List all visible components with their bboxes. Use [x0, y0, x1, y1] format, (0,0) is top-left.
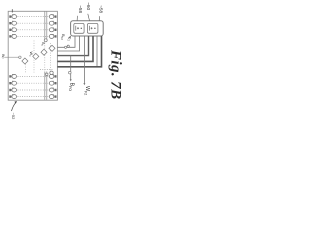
- wire dotted wordline row3: [18, 29, 49, 31]
- memory cell M12: [49, 34, 56, 38]
- memory cell M10: [49, 21, 56, 25]
- memory cell M7: [9, 88, 16, 92]
- wire W3: [57, 36, 88, 56]
- arrow 520: [12, 102, 17, 111]
- wire dotted wordline row5: [18, 75, 49, 77]
- memory array box 500: [8, 11, 57, 100]
- memory cell M5: [9, 74, 16, 78]
- wire dotted wordline row8: [18, 96, 49, 98]
- wire long vertical WF2: [83, 36, 85, 84]
- wire bitline BL2 top: [46, 12, 48, 41]
- wire dotted wordline row4: [18, 35, 49, 37]
- memory cell M8: [9, 94, 16, 98]
- wire dotted bitline continuation B: [33, 41, 35, 73]
- wire dotted bitline continuation A: [44, 41, 46, 72]
- svg-text:WF: WF: [0, 54, 5, 59]
- wire dotted wordline row1: [18, 16, 49, 18]
- node square N3: [46, 73, 48, 75]
- wire long vertical BFO: [70, 56, 72, 81]
- memory cell M15: [49, 88, 56, 92]
- memory cell M9: [49, 14, 56, 18]
- driver unit U1: [74, 23, 84, 33]
- node circle on BFO: [69, 71, 72, 74]
- node circle N2: [50, 71, 53, 74]
- svg-text:~52: ~52: [11, 113, 16, 120]
- driver box 506: [71, 21, 104, 36]
- node circle label o: [67, 45, 69, 47]
- driver unit U2 symbol: [89, 26, 95, 31]
- svg-text:WF2: WF2: [84, 86, 90, 95]
- memory cell M11: [49, 27, 56, 31]
- memory cell M13: [49, 74, 56, 78]
- wire W6: [57, 36, 101, 67]
- memory cell M4: [9, 34, 16, 38]
- wire bitline BL1 top: [44, 12, 46, 41]
- node circle WF: [19, 56, 21, 58]
- arrowhead BFO: [70, 79, 72, 81]
- ellipsis diamond D4: [22, 58, 28, 64]
- wire left edge stub WF: [5, 56, 19, 58]
- wire dotted wordline row2: [18, 22, 49, 24]
- wire dotted wordline row6: [18, 82, 49, 84]
- wire bitline BL2 bottom: [46, 72, 48, 100]
- wire W5: [96, 36, 98, 66]
- driver unit U2: [87, 23, 98, 33]
- label 2 leader: [69, 36, 71, 39]
- arrowhead WF2: [83, 83, 85, 85]
- memory cell M2: [9, 21, 16, 25]
- label leader stub top-left: [11, 9, 13, 12]
- svg-text:C2: C2: [66, 37, 72, 42]
- wire W4: [57, 36, 93, 61]
- svg-text:Fig. 7B: Fig. 7B: [108, 49, 124, 99]
- svg-text:BF2: BF2: [60, 34, 66, 40]
- label 506 leader: [76, 16, 78, 21]
- wire dotted bitline continuation C: [49, 43, 51, 72]
- wire dotted wordline row7: [18, 89, 49, 91]
- wire diamond D4 tail: [24, 64, 26, 74]
- label 508 leader: [98, 16, 100, 21]
- ellipsis diamond D2: [41, 49, 47, 55]
- wire bitline BL1 bottom: [44, 72, 46, 100]
- svg-text:~58: ~58: [98, 5, 103, 13]
- memory cell M16: [49, 94, 56, 98]
- wire W2: [57, 36, 79, 51]
- memory cell M1: [9, 14, 16, 18]
- node circle N1: [44, 39, 47, 42]
- memory cell M3: [9, 27, 16, 31]
- driver unit U1 symbol: [76, 26, 82, 31]
- ellipsis diamond D1: [49, 45, 55, 51]
- ellipsis diamond D3: [33, 53, 39, 59]
- node circle on W1: [65, 46, 67, 48]
- svg-text:BFO: BFO: [68, 83, 74, 92]
- label 510 leader: [88, 14, 90, 21]
- wire W1: [57, 36, 75, 47]
- wire dotted short row mid: [40, 69, 54, 71]
- memory cell M14: [49, 81, 56, 85]
- svg-text:~60: ~60: [86, 2, 91, 10]
- memory cell M6: [9, 81, 16, 85]
- svg-text:~58: ~58: [78, 5, 83, 13]
